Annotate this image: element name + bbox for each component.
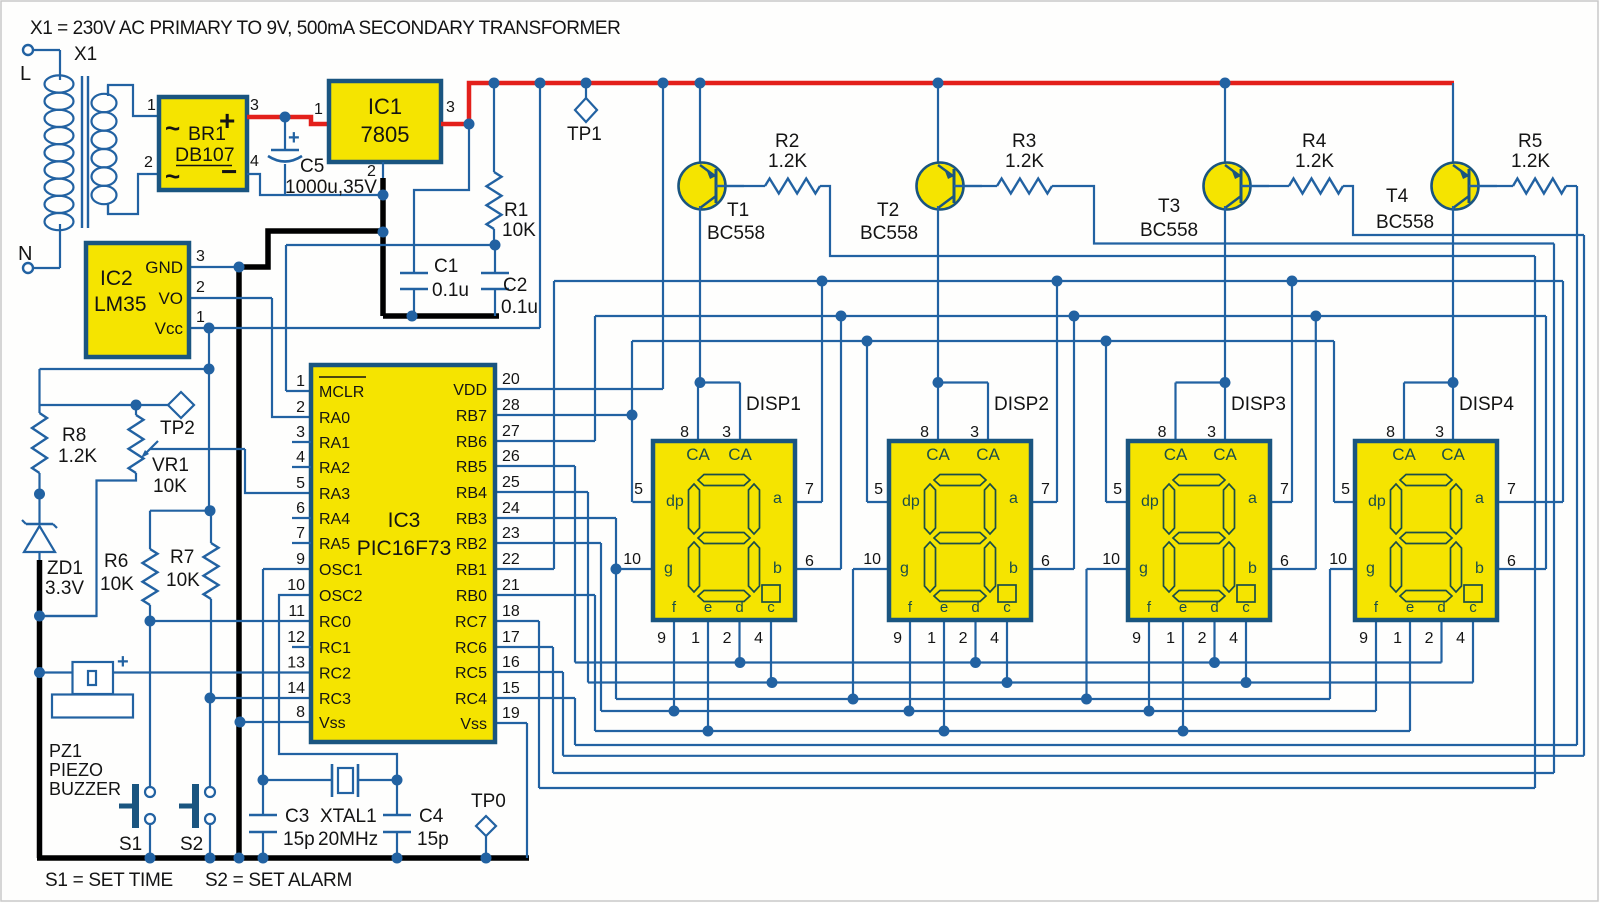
wire VO to RA0 (272, 298, 311, 417)
wire R7 bottom (210, 599, 212, 699)
capacitor C5 (284, 117, 286, 150)
svg-text:4: 4 (1456, 630, 1465, 647)
junction dot (938,83) (933, 78, 944, 89)
wire TP1 stub (585, 83, 587, 99)
svg-text:RC6: RC6 (455, 640, 487, 657)
junction dot (841,316) (836, 311, 847, 322)
wire DISP1 pin8 riser (697, 383, 699, 442)
wire Vcc to R8 top (40, 368, 210, 370)
svg-text:S2: S2 (180, 834, 203, 855)
wire DISP1 g stub (616, 568, 653, 570)
wire S2 top lead (209, 699, 211, 787)
wire OSC2 to crystal (279, 595, 397, 780)
svg-text:c: c (767, 599, 775, 616)
wire b bus to DISP4 (1545, 316, 1547, 569)
transistor T2 BC558 (937, 83, 939, 165)
svg-text:10: 10 (287, 577, 305, 594)
wire DISP1 a stub (795, 501, 822, 503)
svg-text:R4: R4 (1302, 131, 1327, 152)
junction dot (1214.5,662.5) (1209, 657, 1220, 668)
wire RB6 (495, 440, 595, 442)
svg-text:C1: C1 (434, 256, 458, 277)
svg-text:C4: C4 (419, 806, 444, 827)
wire OSC1 riser (262, 569, 264, 780)
svg-text:2: 2 (1425, 630, 1434, 647)
svg-text:X1 = 230V AC PRIMARY TO 9V, 50: X1 = 230V AC PRIMARY TO 9V, 500mA SECOND… (30, 18, 620, 39)
svg-text:DISP3: DISP3 (1231, 394, 1286, 415)
wire RB1 (495, 568, 554, 570)
wire DISP1 dp stub (633, 501, 654, 503)
svg-text:13: 13 (287, 655, 305, 672)
svg-text:7805: 7805 (361, 122, 410, 147)
bus digit RC6 (553, 772, 1554, 774)
svg-text:N: N (18, 243, 32, 265)
gnd trunk vertical (236, 267, 242, 858)
junction dot (39.5,672.5) (34, 667, 45, 678)
wire DISP3 pin8 riser (1174, 383, 1176, 442)
svg-text:a: a (773, 490, 782, 507)
junction dot (239,858) (234, 853, 245, 864)
svg-text:DISP4: DISP4 (1459, 394, 1514, 415)
svg-text:1.2K: 1.2K (1005, 151, 1044, 172)
svg-text:a: a (1475, 490, 1484, 507)
svg-text:0.1u: 0.1u (501, 297, 538, 318)
svg-text:C5: C5 (300, 156, 324, 177)
wire S1 bottom (149, 824, 151, 858)
svg-text:3: 3 (296, 424, 305, 441)
svg-text:3: 3 (250, 97, 259, 114)
junction dot (740,662.5) (735, 657, 746, 668)
red +5V rail (469, 83, 1454, 124)
svg-text:~: ~ (165, 113, 180, 143)
svg-text:VR1: VR1 (152, 455, 189, 476)
wire buzzer to RC2 (113, 671, 311, 673)
svg-text:8: 8 (680, 424, 689, 441)
svg-text:22: 22 (502, 551, 520, 568)
svg-text:1: 1 (1393, 630, 1402, 647)
svg-text:VDD: VDD (453, 382, 487, 399)
svg-text:3: 3 (722, 424, 731, 441)
wire DISP2 e pin (943, 620, 945, 731)
junction dot (397,780) (392, 775, 403, 786)
svg-text:BC558: BC558 (1376, 212, 1434, 233)
svg-text:dp: dp (1368, 493, 1386, 510)
junction dot (975.5,662.5) (970, 657, 981, 668)
junction dot (540,83) (535, 78, 546, 89)
svg-text:S1: S1 (119, 834, 142, 855)
capacitor C3 (262, 780, 264, 815)
svg-text:b: b (1475, 560, 1484, 577)
junction dot (210,698) (205, 693, 216, 704)
wire DISP4 CA bridge (1404, 381, 1453, 383)
svg-text:T3: T3 (1158, 196, 1180, 217)
svg-text:DISP1: DISP1 (746, 394, 801, 415)
svg-text:RB0: RB0 (456, 588, 487, 605)
DISP4 box (1355, 441, 1497, 620)
svg-text:8: 8 (1386, 424, 1395, 441)
DISP3 digit segments (1173, 475, 1225, 486)
svg-text:OSC2: OSC2 (319, 588, 363, 605)
wire R2 to bus (820, 186, 1535, 256)
svg-text:GND: GND (145, 258, 183, 277)
wire RC5 (495, 671, 563, 673)
junction dot (674,711) (669, 706, 680, 717)
svg-text:PZ1: PZ1 (49, 741, 82, 761)
svg-text:3: 3 (1435, 424, 1444, 441)
DISP2 box (889, 441, 1031, 620)
resistor R1 (493, 83, 495, 172)
svg-text:27: 27 (502, 423, 520, 440)
svg-text:6: 6 (805, 553, 814, 570)
svg-text:10: 10 (1329, 551, 1347, 568)
svg-text:+: + (288, 127, 300, 149)
wire DISP4 pin3 riser (1452, 383, 1454, 442)
DB107 underline (176, 165, 232, 167)
wire Vss19 to gnd (526, 723, 528, 858)
svg-text:25: 25 (502, 474, 520, 491)
junction dot (210,858) (205, 853, 216, 864)
wire primary to N (33, 267, 60, 269)
svg-text:PIEZO: PIEZO (49, 760, 103, 780)
junction dot (263,858) (258, 853, 269, 864)
junction dot (39.5,494) (34, 489, 45, 500)
wire RB3 riser g (615, 518, 617, 699)
junction dot (1246,682.5) (1241, 677, 1252, 688)
svg-text:8: 8 (296, 704, 305, 721)
wire RC4 riser (574, 698, 576, 745)
svg-text:ZD1: ZD1 (47, 558, 83, 579)
svg-text:RA2: RA2 (319, 460, 350, 477)
svg-text:24: 24 (502, 500, 520, 517)
svg-text:CA: CA (728, 445, 752, 464)
wire VDD riser to rail (662, 83, 664, 389)
wire RB0 (495, 594, 595, 596)
junction dot (867,341) (862, 336, 873, 347)
svg-text:15: 15 (502, 680, 520, 697)
wire R6 top lead (149, 511, 151, 549)
svg-text:e: e (940, 599, 948, 616)
wire DISP2 a stub (1031, 501, 1057, 503)
wire RB2 (495, 542, 601, 544)
svg-text:10K: 10K (502, 220, 536, 241)
svg-text:6: 6 (1280, 553, 1289, 570)
junction dot (210,510.7) (205, 505, 216, 516)
svg-text:T4: T4 (1386, 186, 1409, 207)
wire crystal right (358, 779, 397, 781)
wire IC1 pin2 stub (382, 162, 384, 180)
junction dot (663,83) (658, 78, 669, 89)
wire DISP3 g stub (1087, 568, 1129, 570)
transformer X1 primary coil (45, 75, 74, 92)
svg-text:1: 1 (1166, 630, 1175, 647)
junction dot (1315.8,316) (1310, 311, 1321, 322)
wire DISP3 f pin (1148, 620, 1150, 711)
wire RB6 riser (594, 316, 596, 441)
sensor IC2 LM35 box (86, 243, 189, 357)
wire DISP3 pin3 riser (1224, 383, 1226, 442)
wire DISP3 g drop (1085, 569, 1087, 699)
wire RC6 (495, 646, 553, 648)
svg-text:XTAL1: XTAL1 (320, 806, 377, 827)
junction dot (772,682.5) (767, 677, 778, 688)
wire DISP1 b stub (795, 568, 841, 570)
svg-text:R6: R6 (104, 551, 128, 572)
junction dot (150,858) (145, 853, 156, 864)
junction dot (944,731) (939, 726, 950, 737)
svg-text:1.2K: 1.2K (1295, 151, 1334, 172)
wire DISP3 d pin (1213, 620, 1215, 663)
svg-text:7: 7 (1041, 481, 1050, 498)
junction dot (1292,281) (1287, 276, 1298, 287)
wire DISP3 b riser (1315, 316, 1317, 569)
svg-text:BC558: BC558 (860, 223, 918, 244)
wire R6 R7 tops (150, 510, 210, 512)
wire VR1 wiper to RA3 (150, 448, 245, 450)
wire RC3 line (210, 697, 311, 699)
wire DISP3 dp riser (1105, 341, 1107, 502)
svg-text:0.1u: 0.1u (432, 280, 469, 301)
svg-text:TP2: TP2 (160, 418, 195, 439)
junction dot (486,858) (481, 853, 492, 864)
wire MCLR riser (285, 245, 287, 391)
wire 5V riser (539, 83, 541, 328)
svg-text:1: 1 (691, 630, 700, 647)
svg-text:IC3: IC3 (388, 509, 421, 532)
svg-text:RB5: RB5 (456, 459, 487, 476)
junction dot (1106,341) (1101, 336, 1112, 347)
transformer core (81, 76, 83, 228)
svg-text:3: 3 (196, 248, 205, 265)
svg-text:1.2K: 1.2K (58, 446, 97, 467)
wire RC7 riser (538, 621, 540, 788)
svg-text:19: 19 (502, 705, 520, 722)
svg-text:20: 20 (502, 371, 520, 388)
svg-text:Vss: Vss (460, 716, 487, 733)
svg-text:L: L (20, 63, 31, 85)
svg-text:VO: VO (158, 289, 183, 308)
svg-text:PIC16F73: PIC16F73 (357, 537, 452, 560)
svg-text:IC1: IC1 (368, 94, 402, 119)
junction dot (853,699) (848, 694, 859, 705)
wire wiper riser RA3 (245, 449, 311, 493)
wire DISP1 pin3 riser (739, 383, 741, 442)
DISP1 box (653, 441, 795, 620)
wire DISP4 a stub (1497, 501, 1563, 503)
junction dot (586,83) (581, 78, 592, 89)
wire RB5 riser (574, 466, 576, 663)
svg-text:8: 8 (1158, 424, 1167, 441)
junction dot (1086.5,699) (1081, 694, 1092, 705)
wire DISP2 b riser (1073, 316, 1075, 569)
svg-text:BR1: BR1 (188, 123, 226, 145)
wire R8 bottom (38, 473, 40, 494)
svg-text:b: b (1009, 560, 1018, 577)
wire RC5 riser (562, 672, 564, 756)
bus digit RC5 (563, 755, 1584, 757)
svg-text:T1: T1 (727, 200, 749, 221)
svg-text:10K: 10K (153, 476, 187, 497)
junction dot (909,711) (904, 706, 915, 717)
wire DISP2 g drop (852, 569, 854, 699)
resistor R7 (204, 543, 219, 599)
IC3 pin 4 RA2 (292, 466, 311, 468)
svg-text:RB4: RB4 (456, 485, 487, 502)
microcontroller IC3 box (311, 365, 495, 742)
svg-text:1: 1 (314, 101, 323, 118)
wire to R8 top (38, 369, 40, 413)
svg-text:23: 23 (502, 525, 520, 542)
svg-text:e: e (1179, 599, 1187, 616)
svg-text:2: 2 (959, 630, 968, 647)
wire R5 to RC4 bus (1576, 186, 1578, 745)
DISP4 digit segments (1400, 475, 1452, 486)
svg-text:IC2: IC2 (100, 267, 133, 290)
svg-text:RC1: RC1 (319, 640, 351, 657)
svg-text:2: 2 (367, 163, 376, 180)
svg-text:7: 7 (805, 481, 814, 498)
svg-text:26: 26 (502, 448, 520, 465)
gnd bottom bus (37, 855, 529, 861)
wire R2 to RC7 bus (1534, 256, 1536, 788)
svg-text:+: + (117, 651, 129, 673)
svg-text:g: g (1139, 560, 1148, 577)
IC3 pin 12 RC1 (292, 646, 311, 648)
svg-text:RA1: RA1 (319, 435, 350, 452)
svg-text:C3: C3 (285, 806, 309, 827)
wire Vcc down to R6 R7 (208, 328, 210, 511)
svg-text:RC7: RC7 (455, 614, 487, 631)
svg-text:e: e (704, 599, 712, 616)
DISP2 digit segments (934, 475, 986, 486)
wire DISP2 dp stub (867, 501, 889, 503)
wire secondary top to BR1 pin1 (108, 85, 159, 116)
wire secondary bottom to BR1 pin2 (108, 174, 159, 214)
wire DISP2 pin3 riser (987, 383, 989, 442)
svg-text:4: 4 (754, 630, 763, 647)
junction dot (39.5,616) (34, 611, 45, 622)
wire RC6 riser (552, 647, 554, 773)
wire Vss19 (495, 722, 527, 724)
svg-text:RB2: RB2 (456, 536, 487, 553)
svg-text:2: 2 (296, 399, 305, 416)
wire gnd to buzzer (40, 671, 73, 673)
svg-text:9: 9 (1132, 630, 1141, 647)
svg-text:d: d (971, 599, 979, 616)
svg-text:9: 9 (296, 551, 305, 568)
wire RB4 (495, 491, 588, 493)
svg-text:5: 5 (634, 481, 643, 498)
svg-text:1000u,35V: 1000u,35V (285, 177, 377, 198)
DISP3 box (1128, 441, 1270, 620)
svg-text:c: c (1469, 599, 1477, 616)
svg-text:BC558: BC558 (707, 223, 765, 244)
bridge rectifier BR1 box (159, 97, 247, 190)
terminal N (23, 263, 33, 273)
svg-text:1.2K: 1.2K (1511, 151, 1550, 172)
svg-text:4: 4 (990, 630, 999, 647)
wire IC2 Vcc to 5V riser (189, 327, 540, 329)
svg-text:BC558: BC558 (1140, 220, 1198, 241)
bus segment g (616, 698, 1330, 700)
svg-text:Vss: Vss (319, 715, 346, 732)
switch S1 (145, 787, 155, 797)
svg-text:DB107: DB107 (175, 144, 235, 166)
svg-text:OSC1: OSC1 (319, 562, 363, 579)
svg-text:12: 12 (287, 629, 305, 646)
resistor R8 (32, 413, 47, 473)
svg-text:15p: 15p (283, 829, 315, 850)
svg-text:RB1: RB1 (456, 562, 487, 579)
wire IC2 VO (189, 297, 272, 299)
svg-text:TP0: TP0 (471, 791, 506, 812)
junction dot (616,569) (611, 564, 622, 575)
svg-text:R8: R8 (62, 425, 86, 446)
wire R3 to bus (1052, 186, 1554, 244)
bus segment d (575, 661, 1442, 663)
svg-text:7: 7 (1280, 481, 1289, 498)
potentiometer VR1 (135, 405, 137, 415)
bus segment c (588, 681, 1473, 683)
red wire IC1 out (441, 122, 469, 127)
svg-text:RC0: RC0 (319, 614, 351, 631)
regulator IC1 box (329, 81, 441, 162)
wire DISP3 a riser (1291, 281, 1293, 502)
wire DISP3 dp stub (1106, 501, 1128, 503)
wire RB7 riser dp (631, 341, 633, 502)
svg-text:4: 4 (296, 449, 305, 466)
junction dot (240,722) (235, 717, 246, 728)
svg-text:RB6: RB6 (456, 434, 487, 451)
svg-text:2: 2 (1198, 630, 1207, 647)
wire R5 to bus (1566, 185, 1577, 187)
svg-text:c: c (1242, 599, 1250, 616)
wire L to primary (33, 49, 60, 51)
svg-text:21: 21 (502, 577, 520, 594)
wire R6 bottom (149, 605, 151, 621)
IC3 pin 7 RA5 (292, 542, 311, 544)
wire S1 top lead (149, 621, 151, 787)
svg-text:1: 1 (196, 309, 205, 326)
svg-text:4: 4 (250, 153, 259, 170)
svg-text:RA5: RA5 (319, 536, 350, 553)
junction dot (1007,682.5) (1002, 677, 1013, 688)
svg-text:d: d (735, 599, 743, 616)
bus segment a (554, 280, 1563, 282)
wire BR1 pin4 to gnd node (247, 174, 383, 195)
junction dot (494,83) (489, 78, 500, 89)
svg-text:20MHz: 20MHz (318, 829, 378, 850)
svg-text:CA: CA (686, 445, 710, 464)
wire RC0 line (150, 620, 311, 622)
wire DISP1 c pin (770, 620, 772, 683)
wire IC2 GND stub (189, 266, 237, 268)
svg-text:RB3: RB3 (456, 511, 487, 528)
junction dot (632,415) (627, 410, 638, 421)
resistor R6 (143, 549, 158, 605)
svg-text:5: 5 (1341, 481, 1350, 498)
capacitor C4 (396, 780, 398, 815)
svg-text:17: 17 (502, 629, 520, 646)
svg-text:3: 3 (1207, 424, 1216, 441)
red wire BR1 + to IC1 in (247, 117, 329, 124)
svg-text:5: 5 (874, 481, 883, 498)
svg-text:R3: R3 (1012, 131, 1036, 152)
wire DISP4 pin8 riser (1403, 383, 1405, 442)
svg-text:6: 6 (296, 500, 305, 517)
transformer X1 secondary coil (92, 94, 117, 112)
wire DISP2 f pin (909, 620, 911, 711)
svg-text:RC3: RC3 (319, 691, 351, 708)
